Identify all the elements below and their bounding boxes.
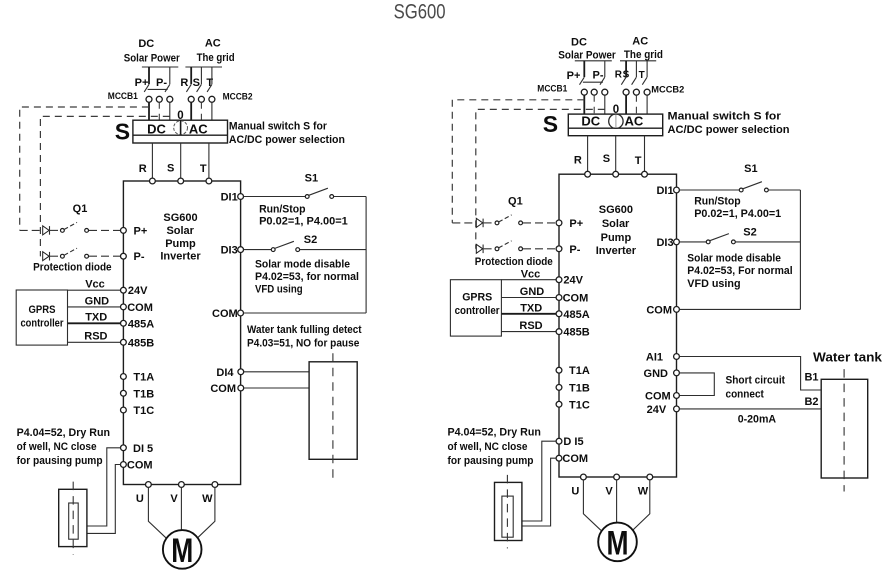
wire COM to loop (right)	[679, 308, 800, 310]
svg-text:Run/Stop: Run/Stop	[694, 196, 741, 208]
svg-text:AC: AC	[205, 38, 221, 50]
label GPRS controller (right)	[455, 292, 501, 318]
terminal COM s-loop (left)	[212, 308, 243, 320]
svg-text:VFD using: VFD using	[255, 283, 303, 295]
breaker MCCB2 pole S (right)	[632, 61, 640, 114]
motor M (right)	[598, 523, 637, 563]
svg-text:Inverter: Inverter	[596, 245, 637, 257]
svg-text:P4.02=53, For normal: P4.02=53, For normal	[687, 265, 792, 277]
wire COM to well sensor (left)	[87, 465, 121, 534]
svg-text:SG600: SG600	[163, 212, 197, 224]
svg-text:controller: controller	[21, 318, 65, 330]
svg-text:The grid: The grid	[197, 52, 235, 64]
terminal COM di5 (right)	[556, 453, 588, 465]
svg-text:DI1: DI1	[656, 185, 673, 197]
switch S selector box (left)	[133, 120, 228, 143]
svg-text:S1: S1	[744, 163, 757, 175]
wire W to motor (right)	[633, 480, 650, 530]
svg-text:Manual switch S for: Manual switch S for	[229, 121, 328, 133]
note manual switch (left)	[229, 121, 345, 146]
note Solar mode disable (left)	[255, 258, 359, 295]
wire COM to tank (left)	[244, 387, 309, 389]
svg-text:P+: P+	[567, 70, 581, 82]
svg-text:B1: B1	[804, 372, 818, 384]
svg-text:COM: COM	[210, 383, 236, 395]
terminal R (right)	[585, 171, 591, 177]
svg-text:V: V	[605, 486, 613, 498]
label S (left mid)	[167, 163, 174, 175]
svg-text:COM: COM	[563, 293, 589, 305]
label T (left mid)	[200, 163, 207, 175]
label S2 (left)	[304, 234, 317, 246]
svg-text:GND: GND	[644, 368, 669, 380]
terminal 485B (left)	[121, 337, 155, 349]
label T (right top)	[639, 70, 645, 81]
svg-text:P+: P+	[134, 225, 148, 237]
label Protection diode (right)	[475, 256, 553, 268]
wire S to inverter (left)	[180, 143, 182, 181]
wire DI5 to well sensor (left)	[87, 448, 121, 526]
wire U to motor (left)	[148, 487, 166, 537]
diode D1 with switch Q1a (right)	[452, 215, 556, 228]
svg-text:T1C: T1C	[133, 405, 154, 417]
svg-text:24V: 24V	[563, 275, 583, 287]
svg-text:T: T	[635, 155, 642, 167]
svg-text:P+: P+	[135, 77, 149, 89]
diode D1 with switch Q1a (left)	[20, 222, 121, 235]
wire V to motor (right)	[616, 480, 618, 523]
svg-text:for pausing pump: for pausing pump	[17, 455, 103, 467]
note dry run (right)	[448, 427, 542, 467]
svg-text:RSD: RSD	[519, 320, 542, 332]
terminal COM di5 (left)	[121, 460, 153, 472]
terminal T1C (right)	[556, 399, 590, 411]
svg-text:TXD: TXD	[85, 312, 107, 324]
svg-text:SG600: SG600	[599, 204, 633, 216]
wire 24V to tank B2 (right)	[679, 408, 821, 410]
wire T to inverter (left)	[208, 143, 210, 181]
wire RSD (right)	[501, 320, 559, 332]
wire RSD (left)	[68, 331, 124, 343]
label R (right top)	[615, 70, 623, 81]
wire short circuit connect (right)	[679, 373, 714, 396]
label inverter name (right)	[596, 204, 637, 257]
svg-text:0-20mA: 0-20mA	[738, 414, 776, 426]
svg-text:Protection diode: Protection diode	[33, 261, 112, 273]
note water tank detect (left)	[247, 324, 362, 350]
wire COM to well sensor (right)	[522, 458, 556, 526]
svg-text:485A: 485A	[128, 318, 154, 330]
terminal GND (right)	[644, 368, 680, 380]
label AC position (right)	[625, 114, 644, 129]
label DC Solar Power (right)	[558, 37, 616, 62]
terminal T1B (right)	[556, 382, 590, 394]
switch S1 (right)	[679, 182, 800, 192]
terminal DI1 (right)	[656, 185, 679, 197]
wire control loop right edge (left)	[365, 197, 367, 314]
svg-text:Solar mode disable: Solar mode disable	[687, 252, 781, 264]
wire control loop right edge (right)	[799, 190, 801, 309]
svg-text:DC: DC	[138, 38, 154, 50]
terminal V (right)	[605, 474, 619, 497]
terminal 485A (right)	[556, 309, 590, 321]
wire R to inverter (left)	[151, 143, 153, 181]
label MCCB2 (right)	[651, 85, 684, 96]
terminal COM gprs (right)	[556, 293, 588, 305]
svg-text:P4.02=53, for normal: P4.02=53, for normal	[255, 271, 359, 283]
label DC position (right)	[581, 114, 600, 129]
label 0 position (left)	[177, 110, 183, 122]
svg-text:Pump: Pump	[165, 238, 196, 250]
svg-text:MCCB1: MCCB1	[537, 84, 568, 95]
label P+ (right top)	[567, 70, 581, 82]
note Solar mode disable (right)	[687, 252, 792, 290]
svg-text:Run/Stop: Run/Stop	[259, 203, 306, 215]
inverter U1 SG600 (left)	[123, 181, 240, 485]
svg-text:U: U	[136, 493, 144, 505]
svg-text:S: S	[603, 153, 610, 165]
label S (right top)	[623, 70, 630, 81]
svg-text:DC: DC	[581, 114, 600, 129]
wire GND (left)	[68, 296, 124, 308]
breaker MCCB1 pole P+ (left)	[144, 67, 152, 120]
svg-text:R: R	[574, 155, 582, 167]
svg-text:P+: P+	[569, 218, 583, 230]
wire U to motor (right)	[583, 480, 601, 530]
label R (right mid)	[574, 155, 582, 167]
label AC The grid (right)	[624, 36, 663, 62]
label B1 (right)	[804, 372, 818, 384]
terminal W (right)	[638, 474, 653, 497]
switch S rotary knob (left)	[174, 120, 188, 135]
note manual switch (right)	[668, 111, 790, 136]
svg-text:P-: P-	[593, 70, 604, 82]
terminal 24V (right)	[556, 275, 584, 287]
svg-text:S1: S1	[305, 173, 318, 185]
breaker MCCB1 middle pole (right)	[591, 89, 597, 114]
terminal R (left)	[150, 178, 156, 184]
label S switch (left)	[115, 119, 130, 145]
svg-text:RSD: RSD	[84, 331, 107, 343]
note dry run (left)	[17, 427, 111, 467]
svg-text:T1C: T1C	[569, 399, 590, 411]
label Q1 (left)	[73, 203, 88, 215]
wire V to motor (left)	[180, 487, 182, 530]
svg-text:P0.02=1, P4.00=1: P0.02=1, P4.00=1	[694, 208, 781, 220]
terminal COM s-loop (right)	[646, 304, 679, 316]
svg-text:MCCB1: MCCB1	[108, 91, 139, 102]
terminal DI1 (left)	[221, 192, 244, 204]
wire Vcc (left)	[68, 279, 124, 291]
svg-text:Vcc: Vcc	[521, 268, 541, 280]
svg-text:24V: 24V	[647, 404, 667, 416]
label Q1 (right)	[508, 195, 523, 207]
note short circuit connect (right)	[726, 375, 786, 401]
terminal U (left)	[136, 482, 151, 505]
svg-text:VFD using: VFD using	[687, 278, 740, 290]
terminal AI1 (right)	[646, 352, 680, 364]
terminal P+ (left)	[121, 225, 148, 237]
label MCCB1 (left)	[108, 91, 139, 102]
inverter U1 SG600 (right)	[559, 174, 677, 477]
label DC position (left)	[147, 122, 166, 137]
switch S2 (right)	[679, 234, 800, 244]
svg-text:P4.03=51, NO for pause: P4.03=51, NO for pause	[247, 338, 359, 350]
svg-text:Water tank: Water tank	[813, 350, 883, 365]
label R (left top)	[180, 77, 188, 89]
well sensor outer box (left)	[59, 489, 87, 546]
svg-text:485A: 485A	[563, 309, 589, 321]
label R (left mid)	[139, 163, 147, 175]
breaker MCCB2 pole R (right)	[621, 61, 629, 114]
terminal T1B (left)	[121, 388, 155, 400]
label MCCB1 (right)	[537, 84, 568, 95]
terminal V (left)	[170, 482, 184, 505]
svg-text:controller: controller	[455, 305, 501, 317]
label T (right mid)	[635, 155, 642, 167]
terminal 485B (right)	[556, 327, 590, 339]
svg-text:COM: COM	[645, 391, 671, 403]
GPRS controller box (left)	[16, 290, 67, 345]
svg-text:GPRS: GPRS	[462, 292, 492, 304]
note Run/Stop (right)	[694, 196, 781, 220]
terminal COM ai (right)	[645, 391, 679, 403]
terminal DI5 (left)	[121, 443, 154, 455]
breaker MCCB2 pole T (left)	[207, 67, 215, 120]
note Run/Stop (left)	[259, 203, 348, 227]
svg-text:P4.04=52, Dry Run: P4.04=52, Dry Run	[448, 427, 542, 439]
svg-text:T1A: T1A	[133, 372, 154, 384]
label P+ (left top)	[135, 77, 149, 89]
breaker MCCB2 pole R (left)	[186, 67, 194, 120]
svg-text:S: S	[543, 111, 558, 137]
wire AC feeder bracket (right)	[620, 60, 656, 62]
svg-text:S2: S2	[304, 234, 317, 246]
svg-text:S: S	[193, 77, 200, 89]
svg-text:COM: COM	[646, 304, 672, 316]
svg-text:DI 5: DI 5	[133, 443, 153, 455]
well sensor outer box (right)	[495, 482, 522, 540]
svg-text:R: R	[139, 163, 147, 175]
wire DC feeder bracket (left)	[142, 66, 178, 68]
svg-text:GPRS: GPRS	[29, 304, 56, 316]
terminal W (left)	[202, 482, 218, 505]
terminal T1A (left)	[121, 372, 155, 384]
wire R to inverter (right)	[587, 136, 589, 175]
breaker MCCB1 middle pole (left)	[156, 96, 162, 120]
label MCCB2 (left)	[223, 92, 253, 103]
breaker MCCB1 tie bar (right)	[583, 81, 603, 83]
svg-text:AC: AC	[625, 114, 644, 129]
svg-text:P4.04=52, Dry Run: P4.04=52, Dry Run	[17, 427, 111, 439]
wire DC feeder bracket (right)	[575, 60, 612, 62]
label S1 (right)	[744, 163, 757, 175]
svg-text:of well, NC close: of well, NC close	[17, 441, 97, 453]
label GPRS controller (left)	[21, 304, 65, 330]
well sensor centre line (left)	[72, 482, 74, 555]
label S (left top)	[193, 77, 200, 89]
svg-text:AC: AC	[189, 122, 208, 137]
terminal T1A (right)	[556, 365, 590, 377]
svg-text:R: R	[615, 70, 623, 81]
svg-text:Solar: Solar	[602, 218, 630, 230]
svg-text:TXD: TXD	[520, 302, 542, 314]
diode D2 with switch Q1b (right)	[476, 241, 556, 254]
terminal DI4 (left)	[216, 367, 243, 379]
water tank centre line (right)	[843, 369, 845, 491]
wire dashed P- tap to Q1 (left)	[40, 116, 169, 256]
svg-text:COM: COM	[212, 308, 238, 320]
svg-text:DC: DC	[571, 37, 587, 49]
label S1 (left)	[305, 173, 318, 185]
svg-text:24V: 24V	[128, 285, 148, 297]
svg-text:AC/DC power selection: AC/DC power selection	[668, 124, 790, 136]
svg-text:W: W	[638, 486, 649, 498]
wire dashed P+ tap to Q1 (right)	[452, 100, 584, 223]
svg-text:Vcc: Vcc	[85, 279, 105, 291]
wire W to motor (left)	[198, 487, 215, 537]
svg-text:DI3: DI3	[656, 237, 673, 249]
svg-text:T1B: T1B	[133, 388, 154, 400]
label 0-20mA (right)	[738, 414, 776, 426]
switch S2 (left)	[244, 241, 367, 251]
terminal DI5 (right)	[556, 436, 583, 448]
breaker MCCB2 pole T (right)	[642, 61, 650, 114]
svg-text:The grid: The grid	[624, 49, 663, 61]
svg-text:Q1: Q1	[508, 195, 523, 207]
label inverter name (left)	[160, 212, 201, 263]
svg-text:MCCB2: MCCB2	[651, 85, 684, 96]
svg-text:DC: DC	[147, 122, 166, 137]
terminal COM gprs (left)	[121, 302, 153, 314]
svg-text:Short circuit: Short circuit	[726, 375, 786, 387]
wire AC feeder bracket (left)	[185, 66, 222, 68]
breaker MCCB1 pole P+ (right)	[580, 61, 588, 114]
svg-text:Water tank fulling detect: Water tank fulling detect	[247, 324, 362, 336]
svg-text:M: M	[171, 532, 193, 570]
svg-text:connect: connect	[726, 389, 765, 401]
svg-text:AC: AC	[632, 36, 648, 48]
svg-text:Solar Power: Solar Power	[124, 53, 181, 65]
svg-text:AC/DC power selection: AC/DC power selection	[229, 134, 345, 146]
svg-text:Pump: Pump	[601, 232, 632, 244]
wire COM to loop (left)	[244, 312, 367, 314]
water tank centre line (left)	[332, 353, 334, 480]
motor M (left)	[163, 530, 202, 570]
label S (right mid)	[603, 153, 610, 165]
well sensor probe (right)	[502, 496, 513, 537]
terminal COM tank (left)	[210, 383, 243, 395]
wire GND (right)	[501, 286, 559, 298]
breaker MCCB1 pole P- (left)	[165, 67, 173, 120]
terminal P- (left)	[121, 251, 145, 263]
wire TXD (left)	[68, 312, 124, 324]
svg-text:for pausing pump: for pausing pump	[448, 455, 534, 467]
wire TXD (right)	[501, 302, 559, 314]
switch S rotary knob (right)	[609, 114, 623, 128]
well sensor probe (left)	[69, 503, 79, 539]
svg-text:Solar Power: Solar Power	[558, 50, 616, 62]
label B2 (right)	[804, 396, 818, 408]
switch S1 (left)	[244, 188, 367, 198]
label T (left top)	[206, 77, 213, 89]
svg-text:T1A: T1A	[569, 365, 590, 377]
wire T to inverter (right)	[644, 136, 646, 175]
label S2 (right)	[743, 226, 756, 238]
wire dashed P- tap to Q1 (right)	[476, 109, 605, 248]
terminal T (left)	[206, 178, 212, 184]
svg-text:AI1: AI1	[646, 352, 663, 364]
svg-text:P-: P-	[134, 251, 145, 263]
svg-text:of well, NC close: of well, NC close	[448, 441, 528, 453]
terminal T (right)	[642, 171, 648, 177]
svg-text:DI4: DI4	[216, 367, 234, 379]
GPRS controller box (right)	[450, 280, 501, 336]
label DC Solar Power (left)	[124, 38, 181, 65]
label Protection diode (left)	[33, 261, 112, 273]
svg-text:COM: COM	[127, 460, 153, 472]
svg-text:S2: S2	[743, 226, 756, 238]
switch S selector box (right)	[568, 114, 662, 136]
svg-text:T1B: T1B	[569, 382, 590, 394]
breaker MCCB2 pole S (left)	[197, 67, 205, 120]
label S switch (right)	[543, 111, 558, 137]
svg-text:D I5: D I5	[563, 436, 583, 448]
well sensor centre line (right)	[506, 475, 508, 549]
label AC position (left)	[189, 122, 208, 137]
water tank sensor box (left)	[309, 362, 357, 460]
wire DI5 to well sensor (right)	[522, 441, 556, 521]
svg-text:Inverter: Inverter	[160, 251, 201, 263]
svg-text:B2: B2	[804, 396, 818, 408]
title SG600	[394, 1, 446, 24]
svg-text:R: R	[180, 77, 188, 89]
svg-text:SG600: SG600	[394, 1, 446, 24]
terminal 485A (left)	[121, 318, 155, 330]
svg-text:COM: COM	[562, 453, 588, 465]
svg-text:Q1: Q1	[73, 203, 88, 215]
svg-text:GND: GND	[520, 286, 545, 298]
svg-text:V: V	[170, 493, 178, 505]
svg-text:DI1: DI1	[221, 192, 238, 204]
svg-text:T: T	[200, 163, 207, 175]
terminal 24V ai (right)	[647, 404, 680, 416]
terminal DI3 (left)	[221, 245, 244, 257]
terminal P+ (right)	[556, 218, 583, 230]
label P- (right top)	[593, 70, 604, 82]
svg-text:Manual switch S for: Manual switch S for	[668, 111, 782, 123]
svg-text:P-: P-	[156, 77, 167, 89]
svg-text:P-: P-	[569, 244, 580, 256]
svg-text:W: W	[202, 493, 213, 505]
svg-text:Protection diode: Protection diode	[475, 256, 553, 268]
svg-text:U: U	[571, 486, 579, 498]
svg-text:P0.02=1, P4.00=1: P0.02=1, P4.00=1	[259, 216, 348, 228]
svg-text:485B: 485B	[128, 337, 154, 349]
svg-text:S: S	[167, 163, 174, 175]
terminal S (right)	[613, 171, 619, 177]
svg-text:0: 0	[613, 104, 619, 116]
water tank box (right)	[821, 379, 868, 478]
svg-text:COM: COM	[127, 302, 153, 314]
wire Vcc (right)	[501, 268, 559, 280]
breaker MCCB1 pole P- (right)	[600, 61, 608, 114]
terminal 24V (left)	[121, 285, 149, 297]
svg-text:DI3: DI3	[221, 245, 238, 257]
label 0 position (right)	[613, 104, 619, 116]
wire S to inverter (right)	[615, 136, 617, 175]
svg-text:0: 0	[177, 110, 183, 122]
